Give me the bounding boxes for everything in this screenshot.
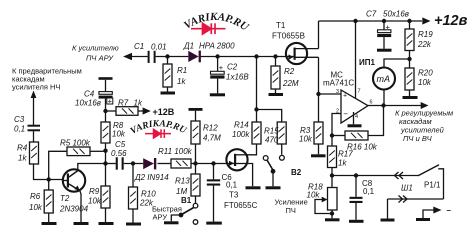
watermark top red diode logo [191,23,226,34]
resistor R7 1k to +12В [106,99,175,117]
wire AGC line to connector [332,175,418,177]
svg-text:T1: T1 [276,21,286,30]
svg-text:FT0655C: FT0655C [224,201,258,210]
resistor R19 22k [405,21,433,68]
node R5/R8 [103,149,107,153]
node rail R19 [407,19,411,23]
wire T3 source to ground [247,164,253,187]
relay contact P1/1 [418,165,444,199]
svg-text:+: + [108,96,113,105]
resistor R2 22M [271,57,299,94]
arrow +12в [422,17,430,24]
svg-text:+12в: +12в [434,13,468,29]
svg-text:10x16в: 10x16в [75,99,101,108]
ground under B1 [164,221,179,224]
node R2 tap [273,54,277,58]
svg-text:+: + [219,63,224,72]
svg-text:R5 100k: R5 100k [60,139,91,148]
resistor R4 1k [17,131,39,164]
connector Ш1 pin marks upper [395,172,404,179]
wire T1 drain to +12 rail [318,21,320,49]
ground under C2 [210,93,225,96]
transistor T2 2N3904 [59,169,89,213]
watermark top VARIKAP.RU [182,11,252,34]
wire feedback from output [368,106,384,136]
svg-text:7: 7 [358,89,361,95]
ground under minus terminal [416,218,430,221]
svg-text:1x16В: 1x16В [226,73,249,82]
resistor R10 22k [129,164,157,223]
svg-text:Ш1: Ш1 [401,184,413,193]
svg-text:0,1: 0,1 [363,187,375,196]
transistor T3 FT0655C [224,149,258,210]
svg-text:R19: R19 [418,30,433,39]
wire R4 to T2 base line [34,164,63,180]
node R14/R15 branch on line A [254,54,258,58]
wire lower connector line [388,198,444,200]
node R10 tap [131,161,135,165]
minus supply terminal [423,206,452,218]
svg-text:1k: 1k [338,159,347,168]
transistor T1 FT0655B [272,21,319,64]
resistor R5 100k (feedback) [49,139,106,180]
capacitor C2 1x16В (electrolytic) [210,57,249,94]
wire mid line segments [106,163,227,165]
arrow output right [421,102,429,109]
wire +12 to op-amp pin7 [355,21,357,98]
capacitor C1 [134,42,167,63]
svg-text:R10: R10 [141,190,156,199]
svg-text:Д2 IN914: Д2 IN914 [134,173,169,182]
resistor R1 1k [163,57,187,92]
capacitor C5 0,56 [111,140,127,170]
svg-text:ИП1: ИП1 [359,58,376,67]
svg-text:B1: B1 [181,196,192,205]
connector Ш1 pin marks lower [399,196,408,203]
svg-text:10k: 10k [29,203,43,212]
ground under R1 [161,92,176,95]
wire to op-amp +input [319,93,342,95]
wire signal line A segments [130,56,286,58]
svg-text:10k: 10k [88,197,102,206]
svg-text:mA: mA [377,74,391,84]
node R19/R20/meter [407,57,411,61]
svg-text:К усилителю: К усилителю [72,44,119,53]
svg-text:4: 4 [355,114,358,120]
svg-text:1k: 1k [18,154,27,163]
svg-text:ПЧ: ПЧ [286,206,296,215]
ground under C7 [377,49,392,52]
wire op-amp -input [332,114,341,136]
wire meter top [384,59,410,68]
diode Д2 IN914 [134,158,169,182]
svg-text:R7: R7 [118,99,129,108]
ground under B2 [266,186,281,189]
ground under R18 [325,218,340,221]
svg-text:T2: T2 [60,194,70,203]
svg-text:ПЧ и ВЧ: ПЧ и ВЧ [403,134,433,143]
svg-text:0,01: 0,01 [151,43,167,52]
ground under T3 source [246,186,261,189]
ground lower connector [381,219,395,222]
svg-text:АРУ: АРУ [153,213,168,222]
svg-text:R15: R15 [264,127,279,136]
node C8 tap [354,173,358,177]
diode Д1 HPA 2800 [183,42,235,63]
label К усилителю ПЧ АРУ [72,44,119,63]
svg-text:1k: 1k [177,77,186,86]
svg-text:C2: C2 [227,63,238,72]
svg-text:10k: 10k [112,130,126,139]
svg-text:R17: R17 [338,150,353,159]
svg-text:B2: B2 [291,168,302,177]
ground under R2 [269,93,284,96]
node R12/R13 on mid line [193,161,197,165]
svg-text:C3: C3 [14,115,25,124]
node C4/R7/R8 [103,109,107,113]
ground under R10 [126,223,141,226]
svg-text:–: – [447,206,452,215]
svg-text:−: − [343,110,348,119]
svg-text:R13: R13 [175,177,190,186]
svg-text:C5: C5 [115,140,126,149]
resistor R9 10k [88,164,110,223]
node at C2 tap [215,54,219,58]
ground under R9 [99,222,114,225]
capacitor C7 50x16в (electrolytic) [366,10,409,49]
resistor R20 10k [405,68,433,96]
node mid line at x105 [103,161,107,165]
svg-text:P1/1: P1/1 [424,181,441,190]
svg-text:R20: R20 [418,69,433,78]
arrow to LF amp (up) [31,91,37,126]
svg-text:10k: 10k [418,78,432,87]
capacitor C6 0,1 [207,164,238,222]
svg-text:6: 6 [370,100,373,106]
node rail C7 [382,19,386,23]
watermark middle red diode logo [145,129,171,138]
svg-text:C1: C1 [134,42,144,51]
svg-text:50x16в: 50x16в [383,10,409,19]
node branch split [254,107,258,111]
resistor R14 100k [232,121,261,145]
ground under C8 [349,220,364,223]
svg-text:0,1: 0,1 [226,181,238,190]
wire op-amp output [368,105,422,107]
svg-text:0,1: 0,1 [14,125,25,134]
ground under R6 [42,222,57,225]
capacitor C4 10x16в (electrolytic) with top ground [75,77,113,111]
svg-text:mA741C: mA741C [323,79,354,88]
svg-text:R11 100k: R11 100k [158,147,193,156]
resistor R8 10k [101,111,126,164]
capacitor C8 0,1 [350,176,375,220]
resistor R16 10k (feedback) [332,131,378,152]
resistor R3 10k [299,122,323,154]
svg-text:1M: 1M [176,187,187,196]
svg-text:C4: C4 [84,90,95,99]
ground under R3 [311,154,326,157]
svg-text:470: 470 [265,136,279,145]
svg-text:FT0655B: FT0655B [272,32,305,41]
svg-text:Д1: Д1 [183,42,194,51]
ground under C6 [206,222,222,225]
svg-text:HPA 2800: HPA 2800 [199,42,235,51]
potentiometer R18 10k Усиление ПЧ [275,176,338,219]
watermark middle VARIKAP.RU [129,119,189,137]
ground under T2 [74,222,89,225]
wire T3 drain to R14 [247,144,257,155]
wire op-amp pin4 to ground [353,112,355,124]
svg-text:усилителя НЧ: усилителя НЧ [12,83,60,92]
capacitor C3 0,1 [14,115,40,134]
svg-text:R4: R4 [17,144,28,153]
svg-text:R14: R14 [234,121,249,130]
wire T1 source down to R3 [318,57,320,122]
wire T2 collector up to mid line [78,164,106,171]
node rail pin7 [353,19,357,23]
svg-text:R9: R9 [89,187,100,196]
svg-text:C7: C7 [366,10,377,19]
svg-text:100k: 100k [232,130,250,139]
ground at op-amp pin4 [348,124,362,127]
label К регулируемым каскадам усилителей ПЧ и ВЧ [395,109,453,144]
resistor R13 1M [175,164,200,204]
node -input/R16/R17 [330,133,334,137]
wire branch down to R14/R15 [257,57,282,123]
node base/R5/R6 [47,177,51,181]
resistor R15 470 [264,122,286,155]
op-amp U1 MC mA741C [323,71,373,124]
resistor R12 4,7M with top ground [189,108,222,164]
svg-text:1k: 1k [134,99,143,108]
svg-text:10k: 10k [307,191,321,200]
svg-text:22k: 22k [417,40,432,49]
arrow to IF amp (left) [123,53,132,60]
svg-text:4,7M: 4,7M [203,134,221,143]
node R17/R18 [330,173,334,177]
resistor R17 1k [328,136,354,176]
resistor R6 10k [29,180,53,223]
wire lower line to ground [387,199,389,219]
svg-text:+12В: +12В [153,107,175,117]
svg-text:3: 3 [336,89,339,95]
wire +12v rail [319,20,423,22]
svg-text:R12: R12 [203,124,218,133]
svg-text:R6: R6 [30,192,41,201]
svg-text:R1: R1 [177,66,187,75]
svg-text:T3: T3 [229,191,239,200]
svg-text:2N3904: 2N3904 [59,205,89,214]
svg-text:22M: 22M [282,79,299,88]
svg-text:R2: R2 [284,67,295,76]
node output [381,103,385,107]
svg-text:10k: 10k [299,135,313,144]
meter ИП1 mA [359,58,395,106]
switch B1 Быстрая АРУ [152,196,198,224]
node C6 tap [211,161,215,165]
node at R1 tap [165,54,169,58]
svg-text:0.56: 0.56 [111,149,127,158]
label К предварительным каскадам усилителя НЧ [12,67,82,92]
ground under R20 [403,96,418,99]
svg-text:+: + [343,93,347,100]
resistor R11 100k [158,147,193,168]
node op-amp +input tap [316,92,320,96]
wire T2 emitter to ground [80,191,81,222]
svg-text:ПЧ АРУ: ПЧ АРУ [86,54,114,63]
switch B2 [263,155,301,186]
